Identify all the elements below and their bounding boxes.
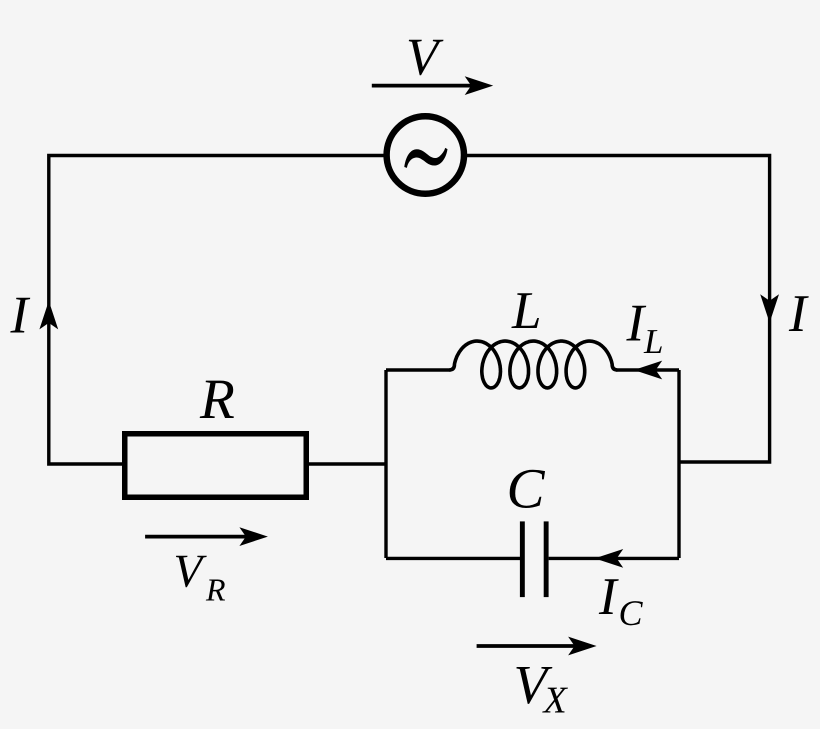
svg-text:C: C [507,458,546,521]
svg-text:R: R [205,571,226,607]
svg-text:L: L [643,322,663,361]
svg-text:I: I [10,286,31,344]
svg-text:I: I [598,568,619,626]
svg-text:V: V [406,29,444,87]
svg-text:L: L [511,282,541,340]
svg-text:I: I [788,285,809,343]
svg-text:C: C [619,593,644,633]
svg-text:R: R [199,368,235,431]
svg-text:X: X [542,680,569,722]
